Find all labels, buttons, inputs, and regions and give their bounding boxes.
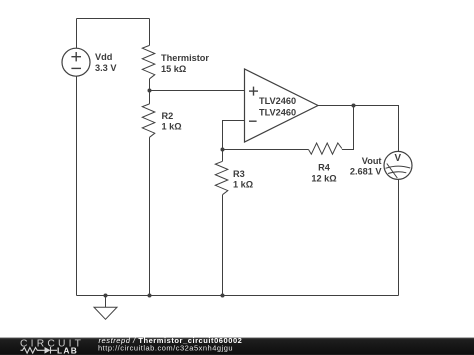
svg-text:1 kΩ: 1 kΩ xyxy=(233,179,253,189)
svg-text:Thermistor: Thermistor xyxy=(161,53,209,63)
svg-text:TLV2460: TLV2460 xyxy=(259,96,296,106)
svg-text:12 kΩ: 12 kΩ xyxy=(311,173,336,183)
svg-text:3.3 V: 3.3 V xyxy=(95,63,117,73)
svg-text:Vout: Vout xyxy=(362,156,382,166)
svg-text:R2: R2 xyxy=(162,111,174,121)
svg-text:1 kΩ: 1 kΩ xyxy=(162,122,182,132)
svg-text:Vdd: Vdd xyxy=(95,52,112,62)
svg-text:2.681 V: 2.681 V xyxy=(350,167,383,177)
svg-text:V: V xyxy=(395,153,402,164)
svg-text:15 kΩ: 15 kΩ xyxy=(161,64,186,74)
svg-text:LAB: LAB xyxy=(57,346,78,355)
svg-text:R3: R3 xyxy=(233,169,245,179)
svg-text:TLV2460: TLV2460 xyxy=(259,107,296,117)
svg-text:R4: R4 xyxy=(318,163,331,173)
svg-text:http://circuitlab.com/c32a5xnh: http://circuitlab.com/c32a5xnh4gjgu xyxy=(98,344,233,353)
